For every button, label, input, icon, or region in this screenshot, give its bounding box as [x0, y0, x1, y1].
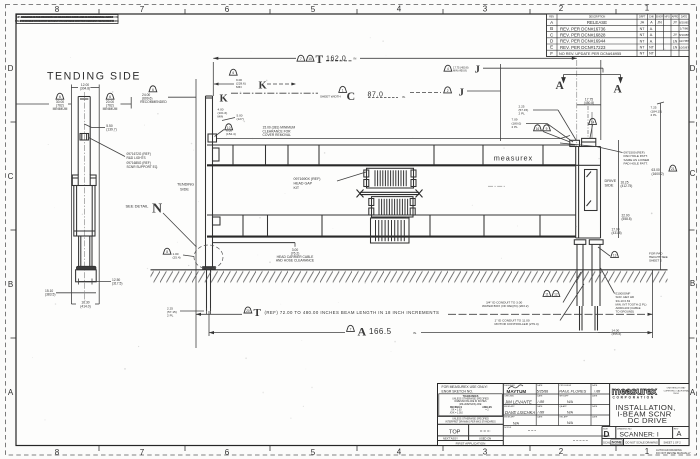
column legs: [577, 244, 600, 306]
vertical dim 63.00: [660, 103, 662, 270]
svg-text:JIM LEVANTE: JIM LEVANTE: [504, 399, 532, 404]
svg-text:(REF) 72.00 TO 480.00 INCHES B: (REF) 72.00 TO 480.00 INCHES BEAM LENGTH…: [265, 310, 440, 315]
svg-text:11: 11: [545, 292, 549, 296]
svg-text:TO GROUND): TO GROUND): [616, 310, 635, 314]
svg-text:8/10/86: 8/10/86: [679, 33, 689, 37]
svg-text:DESIGNER: DESIGNER: [504, 385, 515, 387]
sheet gap arrows: [357, 190, 423, 198]
svg-text:A.: A.: [650, 33, 653, 37]
svg-text:IN: IN: [354, 57, 357, 61]
svg-text:JY: JY: [673, 21, 678, 25]
svg-text:7: 7: [300, 57, 302, 61]
svg-text:SEE DETAIL: SEE DETAIL: [126, 204, 150, 209]
svg-text:8: 8: [166, 250, 168, 254]
svg-text:CUPERTINO, CALIFORNIA: CUPERTINO, CALIFORNIA: [664, 389, 690, 392]
svg-text:(304.8): (304.8): [80, 87, 90, 91]
svg-text:5: 5: [311, 448, 316, 457]
svg-text:20: 20: [246, 309, 250, 313]
beam upper band seams: [233, 145, 543, 165]
stand base plate: [76, 266, 96, 270]
svg-text:(MILLIMETERS) ARE:: (MILLIMETERS) ARE:: [459, 403, 482, 406]
svg-text:N: N: [152, 202, 162, 217]
zone numbers bottom: [55, 447, 650, 457]
svg-text:FIRST APPLICATION: FIRST APPLICATION: [456, 441, 486, 445]
beam lower band bottom rail (thick): [207, 236, 576, 238]
svg-text:A: A: [614, 84, 623, 96]
svg-text:DATE: DATE: [537, 384, 543, 387]
dim 2.25 2PL left: [167, 307, 177, 318]
dim 12.50 bottom: [112, 278, 122, 286]
svg-text:7: 7: [140, 448, 145, 457]
svg-text:B: B: [550, 26, 553, 31]
upper head: [364, 168, 416, 188]
svg-text:NO REV. UPDATE PER DCN#16955: NO REV. UPDATE PER DCN#16955: [559, 52, 621, 56]
svg-text:NOTES: NOTES: [504, 427, 512, 429]
svg-text:F: F: [550, 51, 553, 56]
left column lower attachment: [213, 217, 221, 225]
stand dim 12.00: [80, 83, 90, 91]
tending side vertical label: [177, 183, 194, 192]
svg-text:/ /88: / /88: [537, 400, 545, 404]
autocad note below border: [656, 448, 691, 455]
svg-text:15: 15: [308, 57, 312, 61]
svg-text:T: T: [254, 307, 262, 319]
left scanner column: [206, 96, 213, 270]
svg-text:MAYTUM: MAYTUM: [507, 389, 527, 394]
svg-text:6: 6: [225, 448, 230, 457]
dim 20.00 minimum: [103, 100, 118, 111]
svg-text:REV. PER DCN#17223: REV. PER DCN#17223: [560, 45, 606, 50]
svg-text:2: 2: [559, 4, 564, 13]
svg-text:COVER REMOVAL: COVER REMOVAL: [263, 133, 292, 137]
svg-text:2 PL: 2 PL: [651, 113, 658, 117]
dim 15.10: [45, 289, 55, 297]
revision table: [547, 14, 690, 57]
svg-text:(317.5): (317.5): [112, 282, 122, 286]
svg-text:R&D LIGHTS: R&D LIGHTS: [127, 156, 146, 160]
svg-text:KIT: KIT: [294, 186, 300, 190]
svg-text:DATE: DATE: [592, 405, 598, 408]
svg-text:SHEET 1 OF 2: SHEET 1 OF 2: [664, 440, 682, 444]
svg-text:SHEET 2: SHEET 2: [649, 259, 662, 263]
svg-text:A: A: [556, 80, 565, 92]
section cut line A-A: [562, 75, 623, 83]
svg-text:(558.8): (558.8): [622, 217, 632, 221]
svg-text:IN.: IN.: [413, 331, 417, 335]
svg-text:DATE: DATE: [592, 384, 598, 387]
svg-text:DATE: DATE: [681, 16, 688, 19]
svg-text:REV. PER DCN#16944: REV. PER DCN#16944: [560, 39, 606, 44]
left column base plate: [203, 267, 216, 270]
svg-text:4: 4: [447, 67, 449, 71]
svg-text:CHK: CHK: [649, 16, 654, 19]
cover box on column: [208, 134, 217, 142]
stand centerline: [83, 92, 85, 300]
svg-text:2: 2: [559, 447, 564, 456]
svg-text:REV: REV: [549, 16, 554, 19]
J dim row 1: [444, 65, 452, 71]
svg-text:USED IN WHOLE OR IN PART WITHO: USED IN WHOLE OR IN PART WITHOUT ITS EXP…: [15, 20, 119, 23]
svg-text:MINIMUM: MINIMUM: [53, 107, 68, 111]
svg-text:PROJ ENGR: PROJ ENGR: [560, 385, 572, 387]
svg-text:(127): (127): [237, 117, 244, 121]
svg-text:MFG APP: MFG APP: [560, 394, 570, 397]
svg-text:DATE: DATE: [537, 415, 543, 418]
stand shoulder tabs: [72, 175, 96, 186]
stand pedestal: [79, 236, 92, 267]
balloon 6c: [149, 86, 157, 92]
dim 16.30: [80, 301, 90, 309]
svg-text:A: A: [8, 388, 14, 397]
balloon 6b: [106, 93, 114, 99]
svg-text:QA APP: QA APP: [560, 405, 568, 408]
svg-text:A.: A.: [650, 39, 653, 43]
svg-text:14: 14: [591, 120, 595, 124]
svg-text:AND HOSE CLEARANCE: AND HOSE CLEARANCE: [276, 259, 315, 263]
svg-text:162.0: 162.0: [326, 55, 346, 62]
svg-text:WATER BOX (OF REQ'D) (203.2): WATER BOX (OF REQ'D) (203.2): [482, 304, 529, 308]
svg-text:.XXX = 1.010: .XXX = 1.010: [449, 412, 463, 414]
beam lower band seams: [243, 215, 540, 236]
svg-text:N/A: N/A: [567, 400, 574, 404]
svg-text:SIDE: SIDE: [605, 184, 614, 188]
svg-text:ONE RESULTS WAY: ONE RESULTS WAY: [667, 387, 687, 390]
svg-text:NT: NT: [640, 52, 646, 56]
svg-text:DECIMALS: DECIMALS: [450, 406, 462, 409]
svg-text:1/7/86: 1/7/86: [680, 27, 689, 31]
svg-text:REL APP: REL APP: [560, 415, 569, 418]
signature squiggle: [508, 385, 523, 389]
svg-text:6: 6: [59, 95, 61, 99]
lower head: [369, 197, 415, 217]
svg-text:8: 8: [55, 5, 60, 14]
svg-text:C: C: [347, 89, 356, 103]
svg-text:3: 3: [483, 448, 488, 457]
zone numbers top: [55, 4, 650, 15]
svg-text:DRAWING NO.: DRAWING NO.: [617, 427, 632, 430]
dim 30.00 minimum: [53, 100, 68, 111]
svg-text:ENGR SKETCH NO.: ENGR SKETCH NO.: [442, 390, 474, 394]
svg-text:3: 3: [483, 5, 488, 14]
pad bracket on top: [570, 138, 596, 146]
svg-text:CORPORATION: CORPORATION: [613, 395, 655, 399]
column foot pads: [574, 240, 586, 245]
balloon 14: [589, 118, 597, 124]
svg-text:N/A: N/A: [513, 421, 520, 425]
dim 2.25 2PL top: [519, 104, 529, 115]
svg-text:JA: JA: [640, 21, 645, 25]
balloons 16/9: [534, 125, 542, 131]
svg-text:NT: NT: [640, 39, 646, 43]
svg-text:4: 4: [397, 448, 402, 457]
svg-text:B: B: [8, 280, 13, 289]
svg-text:J: J: [475, 63, 481, 75]
dim 17.75 (450.8) above column: [584, 97, 594, 105]
15.00 minimum clearance text: [263, 126, 296, 137]
drive side label: [605, 179, 617, 188]
svg-text:MFG: MFG: [665, 16, 670, 19]
dim T 162.0: [213, 57, 296, 59]
svg-text:10: 10: [227, 126, 231, 130]
svg-text:A: A: [358, 324, 367, 338]
svg-text:DRFT: DRFT: [639, 16, 646, 19]
zone ticks bottom: [99, 446, 616, 452]
svg-text:SCANNER: I: SCANNER: I: [620, 431, 659, 438]
beam lower band top line: [207, 214, 576, 216]
sheet pass centerline dash: [488, 185, 505, 187]
svg-text:SHEET WIDTH: SHEET WIDTH: [320, 95, 341, 99]
svg-text:5: 5: [311, 5, 316, 14]
dim 7.09 2PL: [512, 118, 522, 129]
svg-text:RECOMMENDED: RECOMMENDED: [140, 100, 167, 104]
svg-text:TOP: TOP: [449, 430, 461, 436]
svg-text:8: 8: [55, 448, 60, 457]
svg-text:DATE: DATE: [537, 405, 543, 408]
svg-text:THIS DRAWING IS THE PROPERTY O: THIS DRAWING IS THE PROPERTY OF MEASUREX…: [15, 16, 119, 19]
pad hole pattern callout: [624, 151, 651, 166]
head carrier cable text: [276, 248, 315, 263]
svg-text:NONE: NONE: [612, 441, 623, 445]
right vertical dim chain: [618, 140, 620, 238]
svg-text:PAD HOLE PATT.: PAD HOLE PATT.: [624, 162, 648, 166]
conduit callout 2: [495, 318, 539, 326]
beam upper band bottom rail (thick): [207, 164, 576, 166]
svg-text:MIN: MIN: [218, 114, 224, 118]
conduit drops: [580, 306, 598, 331]
svg-text:A.: A.: [650, 27, 653, 31]
svg-text:C: C: [8, 172, 14, 181]
svg-text:NT: NT: [640, 27, 646, 31]
dim 5.00: [237, 114, 244, 122]
svg-text:UNLESS OTHERWISE SPECIFIED: UNLESS OTHERWISE SPECIFIED: [452, 419, 489, 421]
svg-text:DATE: DATE: [592, 415, 598, 418]
svg-text:/ /88: / /88: [593, 390, 600, 394]
svg-text:N/A: N/A: [567, 421, 574, 425]
svg-text:C: C: [690, 169, 696, 178]
drive belt window: [585, 170, 598, 211]
svg-text:TENDING SIDE: TENDING SIDE: [47, 71, 141, 83]
svg-text:ENGR APP: ENGR APP: [504, 405, 515, 408]
svg-text:NT: NT: [649, 46, 655, 50]
svg-text:LN: LN: [673, 39, 678, 43]
head gap kit callout: [294, 177, 321, 190]
svg-text:DATE: DATE: [592, 394, 598, 397]
svg-text:NT: NT: [640, 33, 646, 37]
dim 6.00: [226, 128, 236, 136]
proprietary notice box top-left: [17, 15, 119, 24]
drive column centerline: [576, 60, 578, 146]
svg-text:INTERPRET DRAWING PER MXS STAN: INTERPRET DRAWING PER MXS STANDARDS: [445, 420, 496, 423]
svg-text:12: 12: [554, 292, 558, 296]
scale row: [623, 439, 625, 446]
svg-text:B: B: [690, 279, 695, 288]
title block left cell: [442, 385, 488, 394]
zone letters right: [690, 64, 696, 397]
svg-text:9: 9: [546, 127, 548, 131]
svg-text:A: A: [677, 429, 682, 438]
balloon 10 + cover callout: [225, 124, 233, 130]
beam top line: [207, 144, 576, 146]
svg-text:7: 7: [350, 327, 352, 331]
svg-text:(414.0): (414.0): [80, 304, 90, 308]
svg-text:2: 2: [447, 89, 449, 93]
svg-text:DO NOT SCALE DRAWING: DO NOT SCALE DRAWING: [626, 440, 658, 444]
svg-text:10/5/87: 10/5/87: [679, 45, 689, 49]
svg-text:13: 13: [613, 253, 617, 257]
svg-text:REV. PER DCN#16828: REV. PER DCN#16828: [560, 33, 606, 38]
svg-text:TENDING: TENDING: [177, 183, 194, 187]
cover removal clearance phantom line: [217, 138, 560, 140]
svg-text:6: 6: [152, 88, 154, 92]
svg-text:T: T: [316, 54, 324, 66]
zone ticks top: [99, 9, 616, 14]
dim A 166.5 row: [209, 332, 345, 334]
left column legs below ground: [207, 270, 211, 312]
dim 4.00 MIN: [218, 107, 228, 118]
stand R&D lights callout: [127, 152, 159, 169]
svg-text:8/20/85: 8/20/85: [679, 21, 689, 25]
svg-text:(355.6): (355.6): [612, 332, 622, 336]
svg-text:11/7/86: 11/7/86: [679, 39, 689, 43]
svg-text:SIDE: SIDE: [180, 187, 189, 191]
svg-text:95014: 95014: [673, 393, 679, 395]
svg-text:measurex: measurex: [494, 154, 533, 163]
svg-text:N/A: N/A: [567, 411, 574, 415]
for pad height note: [649, 251, 668, 262]
svg-text:APPD: APPD: [672, 15, 679, 18]
svg-text:D: D: [604, 430, 610, 439]
zone ticks left/right: [11, 122, 695, 338]
svg-text:2 PL: 2 PL: [512, 125, 519, 129]
balloon 13: [611, 251, 619, 257]
svg-text:MINIMUM: MINIMUM: [103, 107, 118, 111]
svg-text:JY: JY: [673, 33, 678, 37]
J dim row 2: [444, 87, 452, 93]
svg-text:DO NOT REVISE MANUALLY: DO NOT REVISE MANUALLY: [656, 451, 691, 455]
lower head body below: [371, 218, 410, 243]
svg-text:6: 6: [225, 5, 230, 14]
stand upper tube: [78, 97, 90, 176]
svg-text:NT: NT: [640, 46, 646, 50]
dim 7.25 8PL right: [651, 106, 663, 117]
svg-text:DATE: DATE: [537, 394, 543, 397]
svg-text:(431.8): (431.8): [612, 231, 622, 235]
svg-text:E: E: [550, 45, 553, 50]
svg-text:RAUL FLORES: RAUL FLORES: [559, 389, 586, 394]
size / drawing no / rev row: [601, 427, 603, 446]
scan speckle noise: [32, 37, 665, 438]
svg-text:TOLERANCES: TOLERANCES: [463, 395, 479, 398]
svg-text:/ /88: / /88: [537, 411, 545, 415]
stand main body: [74, 186, 95, 237]
svg-text:16: 16: [536, 127, 540, 131]
svg-text:DESCRIPTION: DESCRIPTION: [589, 16, 606, 19]
svg-text:REV. PER DCN#16736: REV. PER DCN#16736: [560, 26, 606, 31]
svg-text:.XX = 1.03: .XX = 1.03: [451, 410, 463, 412]
detail circle: [194, 245, 223, 269]
svg-text:7: 7: [140, 5, 145, 14]
stand foundation outline: [76, 270, 97, 282]
svg-text:166.5: 166.5: [369, 327, 392, 336]
stand light fixture: [80, 134, 89, 141]
svg-text:4: 4: [397, 5, 402, 14]
svg-text:D: D: [690, 64, 696, 73]
svg-text:DRIVE: DRIVE: [605, 179, 617, 183]
dim 5.50: [106, 124, 116, 132]
vertical extension line at 196: [195, 79, 197, 348]
svg-text:RELEASE: RELEASE: [587, 20, 607, 25]
zone letters left: [8, 64, 14, 397]
svg-text:(25.4): (25.4): [173, 255, 181, 259]
svg-text:CHECKED: CHECKED: [504, 395, 514, 397]
svg-text:J: J: [459, 87, 465, 99]
svg-text:6: 6: [109, 95, 111, 99]
dim K row 1: [229, 69, 237, 75]
balloon 6a: [56, 93, 64, 99]
svg-text:MIN: MIN: [236, 85, 242, 89]
svg-text:A: A: [690, 388, 696, 397]
svg-text:SCNR SUPPORT EQ.: SCNR SUPPORT EQ.: [127, 165, 159, 169]
svg-text:6: 6: [232, 71, 234, 75]
balloon 8 / 1.00: [163, 248, 171, 254]
measurex logo: [602, 386, 689, 445]
dim 24.00 recommended: [140, 93, 167, 104]
svg-text:IN.: IN.: [402, 95, 406, 99]
left column upper attachment: [213, 148, 220, 161]
svg-text:(383.5): (383.5): [45, 293, 55, 297]
svg-text:1: 1: [645, 447, 650, 456]
svg-text:1: 1: [645, 4, 650, 13]
svg-text:FOR MEASUREX USE ONLY!: FOR MEASUREX USE ONLY!: [442, 385, 488, 389]
dim 14.00: [612, 328, 622, 336]
svg-text:(412.75): (412.75): [621, 184, 633, 188]
svg-text:2 PL: 2 PL: [167, 314, 174, 318]
svg-text:K: K: [220, 93, 229, 104]
conduit callout 1: [543, 290, 551, 296]
title block: [438, 384, 690, 446]
svg-text:21: 21: [671, 167, 675, 171]
svg-text:HEAD GAP: HEAD GAP: [294, 182, 313, 186]
svg-text:(152.4): (152.4): [226, 132, 236, 136]
svg-text:K: K: [259, 80, 268, 91]
svg-text:D: D: [8, 64, 14, 73]
svg-text:(1600.2): (1600.2): [652, 172, 664, 176]
svg-text:LN: LN: [673, 46, 678, 50]
head carrier cable clearance line: [213, 242, 295, 244]
svg-text:DIMENSIONS ARE IN INCHES: DIMENSIONS ARE IN INCHES: [454, 400, 487, 403]
svg-text:JN: JN: [657, 21, 662, 25]
svg-text:DC DRIVE: DC DRIVE: [628, 416, 668, 425]
svg-text:MOTOR CONTROLLER (279.4): MOTOR CONTROLLER (279.4): [495, 322, 539, 326]
svg-text:2 PL: 2 PL: [519, 112, 526, 116]
svg-text:1: 1: [342, 88, 344, 92]
dim T (REF) beam length row: [196, 313, 242, 315]
svg-text:NT: NT: [649, 52, 655, 56]
svg-text:DAVE LISCHKA: DAVE LISCHKA: [505, 410, 535, 415]
svg-text:0971690X (REF): 0971690X (REF): [294, 177, 321, 181]
svg-text:ENGR APP: ENGR APP: [504, 415, 515, 418]
title text: [615, 403, 675, 425]
svg-text:(139.7): (139.7): [106, 128, 116, 132]
svg-text:ANGLES: ANGLES: [482, 406, 492, 409]
svg-text:ENGR: ENGR: [656, 16, 663, 19]
svg-text:5/25/88: 5/25/88: [537, 390, 548, 394]
ground screw callout: [616, 292, 647, 314]
svg-text:MIN (450.8): MIN (450.8): [453, 69, 467, 73]
svg-text:USED ON: USED ON: [479, 436, 491, 440]
title block signature/name grid: [503, 384, 609, 441]
